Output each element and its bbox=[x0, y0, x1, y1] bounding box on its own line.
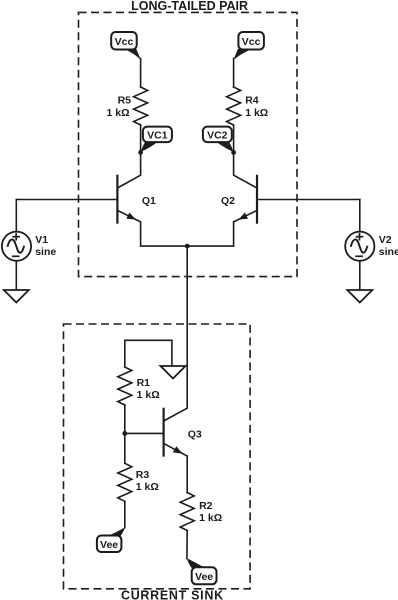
svg-text:VC1: VC1 bbox=[147, 129, 168, 141]
wire R3 to Vee bbox=[124, 501, 126, 527]
resistor R3 bbox=[118, 463, 132, 501]
net flag VC2 bbox=[203, 127, 234, 152]
wire VC1 to Q1 collector bbox=[117, 152, 140, 188]
transistor Q3 bbox=[164, 409, 202, 456]
wire Q2 base bbox=[257, 199, 360, 201]
svg-text:VC2: VC2 bbox=[207, 129, 228, 141]
svg-text:1 kΩ: 1 kΩ bbox=[137, 389, 160, 401]
svg-text:1 kΩ: 1 kΩ bbox=[106, 107, 129, 119]
net flag Vee right bbox=[187, 558, 217, 584]
svg-text:R1: R1 bbox=[137, 377, 151, 389]
svg-text:R3: R3 bbox=[136, 469, 150, 481]
source V1 bbox=[2, 200, 56, 261]
wire V1 to ground bbox=[15, 261, 17, 290]
wire R1 to base node bbox=[124, 405, 126, 433]
svg-text:Q3: Q3 bbox=[188, 429, 202, 441]
svg-text:1 kΩ: 1 kΩ bbox=[199, 512, 222, 524]
svg-text:V2: V2 bbox=[379, 234, 392, 246]
source V2 bbox=[345, 200, 398, 261]
resistor R1 bbox=[118, 367, 132, 405]
wire tail node to Q3 collector bbox=[164, 246, 188, 421]
wire Vcc to R4 bbox=[233, 59, 235, 88]
svg-text:sine: sine bbox=[379, 246, 398, 258]
svg-text:Q1: Q1 bbox=[142, 195, 156, 207]
resistor R2 bbox=[180, 493, 194, 531]
wire Vcc to R5 bbox=[140, 59, 142, 88]
wire Q3 emitter to R2 bbox=[186, 456, 188, 492]
net flag Vcc left bbox=[111, 32, 141, 60]
node base dot bbox=[122, 431, 127, 436]
net flag VC1 bbox=[141, 127, 172, 152]
node VC1 dot bbox=[138, 150, 143, 155]
ground V1 bbox=[4, 290, 29, 303]
svg-text:R4: R4 bbox=[245, 95, 259, 107]
wire R2 to Vee bbox=[186, 531, 188, 559]
wire R5 to node VC1 bbox=[140, 125, 142, 152]
net flag Vee left bbox=[97, 527, 125, 552]
svg-text:sine: sine bbox=[35, 246, 56, 258]
svg-text:Vee: Vee bbox=[195, 571, 213, 583]
svg-text:CURRENT SINK: CURRENT SINK bbox=[121, 589, 224, 600]
resistor R4 bbox=[227, 87, 241, 125]
svg-text:Vcc: Vcc bbox=[242, 36, 261, 48]
svg-text:Vcc: Vcc bbox=[115, 36, 134, 48]
transistor Q2 bbox=[221, 176, 257, 223]
svg-text:R2: R2 bbox=[199, 500, 213, 512]
ground V2 bbox=[347, 290, 372, 303]
dashed box LONG-TAILED PAIR bbox=[79, 12, 298, 276]
svg-text:1 kΩ: 1 kΩ bbox=[245, 107, 268, 119]
wire base node to R3 bbox=[124, 433, 126, 463]
resistor R5 bbox=[134, 87, 148, 125]
wire Q2 emitter to tail node bbox=[187, 222, 233, 246]
wire VC2 to Q2 collector bbox=[234, 152, 257, 188]
wire R1 top loop bbox=[125, 340, 172, 367]
transistor Q1 bbox=[117, 176, 156, 223]
svg-text:LONG-TAILED PAIR: LONG-TAILED PAIR bbox=[131, 0, 248, 13]
wire V2 to ground bbox=[359, 261, 361, 290]
svg-text:Vee: Vee bbox=[100, 539, 118, 551]
svg-text:1 kΩ: 1 kΩ bbox=[136, 481, 159, 493]
wire R4 to node VC2 bbox=[233, 125, 235, 152]
net flag Vcc right bbox=[233, 32, 264, 60]
svg-text:V1: V1 bbox=[35, 234, 48, 246]
wire Q1 emitter to tail node bbox=[141, 222, 188, 246]
dashed box CURRENT SINK bbox=[64, 324, 251, 589]
node emitter junction dot bbox=[185, 244, 190, 249]
svg-text:Q2: Q2 bbox=[221, 195, 235, 207]
wire Q1 base bbox=[16, 199, 117, 201]
node VC2 dot bbox=[231, 150, 236, 155]
wire base node to Q3 bbox=[125, 432, 164, 434]
svg-text:R5: R5 bbox=[118, 95, 132, 107]
ground current sink bbox=[161, 366, 186, 379]
